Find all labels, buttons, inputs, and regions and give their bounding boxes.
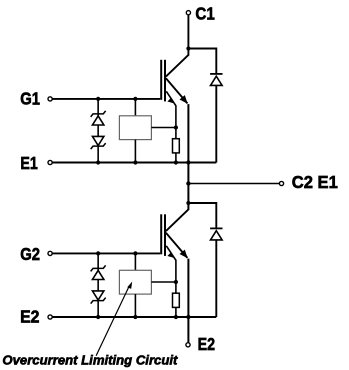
IGBT Q2 gate bar right	[164, 214, 166, 256]
wire box2 top connector	[134, 253, 136, 270]
wire E1 rail	[52, 162, 216, 164]
node G2 zener junction	[96, 251, 100, 255]
overcurrent limiting circuit box U2	[119, 270, 151, 294]
node G2 box junction	[133, 251, 137, 255]
terminal E2 bottom	[186, 343, 190, 347]
svg-text:E1: E1	[20, 153, 38, 173]
resistor R1	[173, 139, 180, 153]
node collector1 junction	[186, 46, 190, 50]
node collector2 junction	[186, 201, 190, 205]
node G1 box junction	[133, 97, 137, 101]
zener Z2a cathode bar	[91, 265, 106, 271]
node E1 box junction	[133, 160, 137, 164]
terminal C1	[186, 11, 190, 15]
wire diode D1 anode down	[215, 85, 217, 162]
wire box2 to sense node	[151, 281, 176, 283]
IGBT Q2 main emitter arrowhead	[180, 250, 188, 259]
wire collector2 to diode D2	[188, 203, 217, 228]
wire box2 bottom connector	[134, 294, 136, 317]
wire E2 rail	[52, 316, 216, 318]
terminal G1	[48, 97, 52, 101]
wire zener branch 1	[97, 99, 99, 163]
node E1 zener junction	[96, 160, 100, 164]
wire G1 to gate	[52, 98, 160, 100]
zener Z1b triangle	[92, 136, 103, 145]
wire R2 to emitter rail	[175, 307, 177, 317]
node E2 bus junction	[186, 315, 190, 319]
zener Z1a cathode bar	[91, 111, 106, 117]
IGBT Q2 main emitter diagonal	[166, 233, 188, 258]
node E1 bus junction	[186, 160, 190, 164]
svg-text:C1: C1	[195, 3, 215, 23]
node sense1 junction	[174, 125, 178, 129]
callout arrowhead	[127, 282, 132, 289]
node E1 resistor junction	[174, 160, 178, 164]
svg-text:G1: G1	[20, 89, 40, 109]
terminal G2	[48, 251, 52, 255]
zener Z1a triangle	[92, 116, 103, 125]
node sense2 junction	[174, 280, 178, 284]
IGBT Q1 sense emitter diagonal	[166, 91, 176, 138]
svg-text:G2: G2	[20, 244, 40, 264]
IGBT Q2 sense emitter arrowhead	[167, 252, 174, 258]
diode D2 triangle	[211, 231, 223, 240]
wire emitter bus Q2 to E2 terminal	[187, 259, 189, 343]
IGBT Q2 collector diagonal	[166, 209, 189, 231]
resistor R2	[173, 293, 180, 307]
overcurrent limiting circuit box U1	[119, 116, 151, 140]
diode D1 cathode bar	[210, 73, 222, 75]
terminal C2E1	[279, 181, 283, 185]
diode D1 triangle	[211, 76, 223, 85]
callout leader line to box U2	[96, 286, 129, 356]
terminal E1	[48, 160, 52, 164]
wire diode D2 anode down	[215, 240, 217, 317]
IGBT Q2 gate bar left	[160, 214, 162, 254]
wire C1 to collector node	[187, 15, 189, 56]
wire emitter bus Q1 to Q2 collector	[187, 104, 189, 210]
svg-text:E2: E2	[198, 334, 216, 354]
wire R1 to emitter rail	[175, 153, 177, 163]
svg-text:E2: E2	[20, 307, 40, 327]
wire collector1 to diode D1	[188, 49, 217, 74]
IGBT Q1 main emitter diagonal	[166, 78, 188, 103]
terminal E2	[48, 315, 52, 319]
svg-text:Overcurrent Limiting Circuit: Overcurrent Limiting Circuit	[2, 353, 178, 368]
wire to C2E1 terminal	[188, 183, 279, 185]
node C2E1 junction	[186, 181, 190, 185]
IGBT Q1 sense emitter arrowhead	[167, 98, 174, 104]
zener Z2a triangle	[92, 270, 103, 279]
IGBT Q1 gate bar right	[164, 60, 166, 102]
node E2 box junction	[133, 315, 137, 319]
IGBT Q1 main emitter arrowhead	[180, 95, 188, 104]
node E2 zener junction	[96, 315, 100, 319]
node G1 zener junction	[96, 97, 100, 101]
IGBT Q1 collector diagonal	[166, 55, 189, 77]
zener Z2b anode bar	[91, 298, 106, 304]
wire G2 to gate	[52, 252, 160, 254]
node E2 resistor junction	[174, 315, 178, 319]
IGBT Q1 gate bar left	[160, 60, 162, 100]
zener Z1b anode bar	[91, 143, 106, 149]
IGBT Q2 sense emitter diagonal	[166, 246, 176, 293]
wire box1 bottom connector	[134, 140, 136, 163]
svg-text:C2 E1: C2 E1	[292, 172, 338, 192]
wire zener branch 2	[97, 253, 99, 317]
zener Z2b triangle	[92, 291, 103, 300]
wire box1 top connector	[134, 99, 136, 116]
wire box1 to sense node	[151, 127, 176, 129]
diode D2 cathode bar	[210, 227, 222, 229]
